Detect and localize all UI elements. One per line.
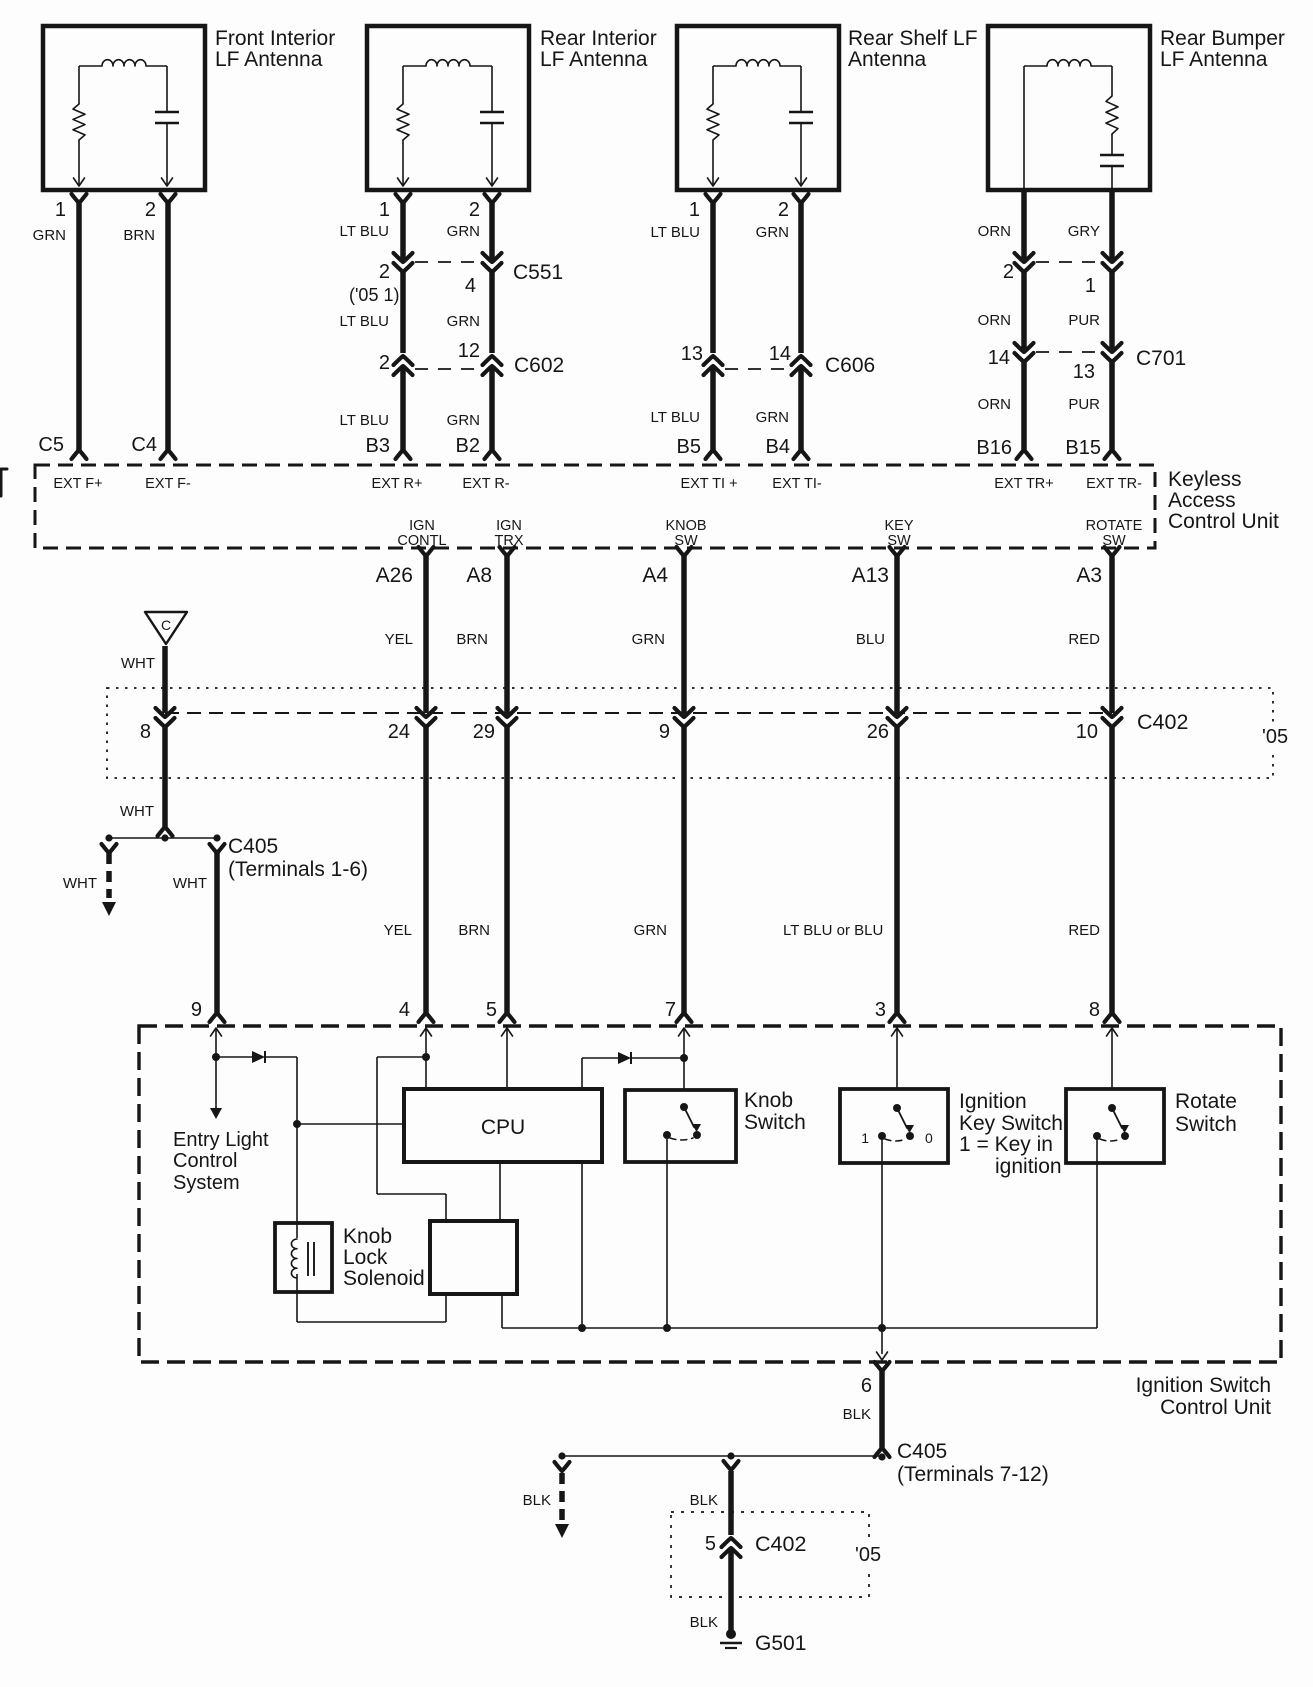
svg-text:Ignition: Ignition xyxy=(959,1090,1027,1113)
svg-text:Lock: Lock xyxy=(343,1246,388,1269)
svg-text:Rotate: Rotate xyxy=(1175,1090,1237,1113)
svg-text:2: 2 xyxy=(379,352,390,374)
svg-text:Entry Light: Entry Light xyxy=(173,1129,269,1151)
svg-text:C402: C402 xyxy=(755,1532,806,1556)
svg-text:LF Antenna: LF Antenna xyxy=(540,48,648,71)
svg-text:C405: C405 xyxy=(897,1440,947,1463)
svg-text:EXT F+: EXT F+ xyxy=(53,476,102,492)
svg-text:Access: Access xyxy=(1168,489,1236,512)
svg-text:BRN: BRN xyxy=(123,227,155,244)
svg-text:13: 13 xyxy=(681,343,703,365)
svg-text:KEY: KEY xyxy=(884,518,913,534)
svg-text:Control Unit: Control Unit xyxy=(1160,1396,1271,1419)
svg-text:C602: C602 xyxy=(514,354,564,377)
svg-text:C405: C405 xyxy=(228,835,278,858)
svg-text:GRN: GRN xyxy=(632,631,665,648)
svg-text:13: 13 xyxy=(1073,361,1095,383)
svg-text:BRN: BRN xyxy=(456,631,488,648)
svg-text:Antenna: Antenna xyxy=(848,48,927,71)
svg-text:Rear Interior: Rear Interior xyxy=(540,27,657,50)
svg-text:EXT F-: EXT F- xyxy=(145,476,191,492)
svg-text:12: 12 xyxy=(458,340,480,362)
svg-text:'05: '05 xyxy=(855,1544,881,1566)
svg-text:1: 1 xyxy=(861,1130,869,1146)
svg-text:1: 1 xyxy=(55,199,66,221)
svg-text:WHT: WHT xyxy=(120,803,154,820)
svg-text:ORN: ORN xyxy=(978,396,1011,413)
svg-text:YEL: YEL xyxy=(384,922,412,939)
svg-text:Switch: Switch xyxy=(1175,1113,1237,1136)
svg-text:C606: C606 xyxy=(825,354,875,377)
svg-text:GRN: GRN xyxy=(33,227,66,244)
svg-text:Front Interior: Front Interior xyxy=(215,27,335,50)
svg-text:2: 2 xyxy=(379,261,390,283)
svg-text:EXT R-: EXT R- xyxy=(462,476,509,492)
svg-text:System: System xyxy=(173,1172,240,1194)
svg-text:ORN: ORN xyxy=(978,312,1011,329)
svg-text:5: 5 xyxy=(705,1533,716,1555)
svg-text:C701: C701 xyxy=(1136,347,1186,370)
svg-text:29: 29 xyxy=(473,721,495,743)
svg-text:ORN: ORN xyxy=(978,223,1011,240)
svg-text:RED: RED xyxy=(1068,922,1100,939)
svg-text:('05 1): ('05 1) xyxy=(349,285,399,305)
svg-text:CONTL: CONTL xyxy=(397,533,446,549)
svg-text:B2: B2 xyxy=(456,435,480,457)
svg-text:8: 8 xyxy=(140,721,151,743)
svg-text:G501: G501 xyxy=(755,1632,806,1655)
svg-text:4: 4 xyxy=(399,999,410,1021)
svg-text:'05: '05 xyxy=(1262,726,1288,748)
svg-text:7: 7 xyxy=(665,999,676,1021)
svg-text:WHT: WHT xyxy=(173,875,207,892)
svg-text:C402: C402 xyxy=(1137,710,1188,734)
svg-text:LT BLU: LT BLU xyxy=(340,313,389,330)
svg-text:Rear Shelf LF: Rear Shelf LF xyxy=(848,27,978,50)
svg-text:LT BLU: LT BLU xyxy=(651,224,700,241)
svg-text:GRN: GRN xyxy=(447,223,480,240)
svg-text:B16: B16 xyxy=(976,437,1012,459)
svg-text:2: 2 xyxy=(469,199,480,221)
svg-text:Control Unit: Control Unit xyxy=(1168,510,1279,533)
svg-text:BLK: BLK xyxy=(690,1614,718,1631)
svg-text:IGN: IGN xyxy=(496,518,522,534)
svg-text:EXT TR-: EXT TR- xyxy=(1086,476,1142,492)
svg-text:8: 8 xyxy=(1089,999,1100,1021)
svg-text:6: 6 xyxy=(861,1375,872,1397)
svg-text:A8: A8 xyxy=(466,564,492,587)
svg-text:GRY: GRY xyxy=(1068,223,1100,240)
svg-text:BLK: BLK xyxy=(843,1406,871,1423)
svg-text:Solenoid: Solenoid xyxy=(343,1267,425,1290)
svg-text:BLK: BLK xyxy=(523,1492,551,1509)
svg-text:LF Antenna: LF Antenna xyxy=(1160,48,1268,71)
svg-text:GRN: GRN xyxy=(634,922,667,939)
svg-text:24: 24 xyxy=(388,721,410,743)
svg-text:Rear Bumper: Rear Bumper xyxy=(1160,27,1285,50)
svg-text:C4: C4 xyxy=(131,434,157,456)
svg-text:LT BLU: LT BLU xyxy=(340,412,389,429)
svg-text:5: 5 xyxy=(486,999,497,1021)
svg-text:CPU: CPU xyxy=(481,1116,525,1139)
svg-text:10: 10 xyxy=(1076,721,1098,743)
svg-text:0: 0 xyxy=(925,1130,933,1146)
svg-text:A13: A13 xyxy=(852,564,889,587)
svg-text:(Terminals 7-12): (Terminals 7-12) xyxy=(897,1463,1049,1486)
svg-text:WHT: WHT xyxy=(63,875,97,892)
svg-text:A3: A3 xyxy=(1076,564,1102,587)
svg-text:9: 9 xyxy=(659,721,670,743)
svg-text:GRN: GRN xyxy=(447,313,480,330)
svg-text:1 = Key in: 1 = Key in xyxy=(959,1133,1053,1156)
svg-text:3: 3 xyxy=(875,999,886,1021)
svg-text:YEL: YEL xyxy=(385,631,413,648)
svg-text:GRN: GRN xyxy=(756,224,789,241)
svg-text:Keyless: Keyless xyxy=(1168,468,1242,491)
svg-text:EXT TR+: EXT TR+ xyxy=(994,476,1054,492)
svg-text:LF Antenna: LF Antenna xyxy=(215,48,323,71)
svg-text:1: 1 xyxy=(689,199,700,221)
svg-text:B5: B5 xyxy=(677,436,701,458)
svg-text:(Terminals 1-6): (Terminals 1-6) xyxy=(228,858,368,881)
svg-text:2: 2 xyxy=(778,199,789,221)
svg-text:LT BLU: LT BLU xyxy=(651,409,700,426)
svg-text:26: 26 xyxy=(867,721,889,743)
svg-text:Knob: Knob xyxy=(343,1225,392,1248)
svg-text:LT BLU: LT BLU xyxy=(340,223,389,240)
svg-text:EXT TI-: EXT TI- xyxy=(772,476,822,492)
svg-text:A4: A4 xyxy=(642,564,668,587)
svg-text:IGN: IGN xyxy=(409,518,435,534)
svg-text:ignition: ignition xyxy=(995,1155,1062,1178)
svg-text:Switch: Switch xyxy=(744,1111,806,1134)
svg-text:B3: B3 xyxy=(366,435,390,457)
svg-text:14: 14 xyxy=(988,347,1010,369)
svg-text:Key Switch: Key Switch xyxy=(959,1112,1063,1135)
svg-text:RED: RED xyxy=(1068,631,1100,648)
svg-text:EXT TI +: EXT TI + xyxy=(680,476,737,492)
svg-text:GRN: GRN xyxy=(447,412,480,429)
svg-text:BLK: BLK xyxy=(690,1492,718,1509)
svg-text:PUR: PUR xyxy=(1068,312,1100,329)
svg-text:4: 4 xyxy=(465,275,476,297)
svg-text:BLU: BLU xyxy=(856,631,885,648)
svg-text:KNOB: KNOB xyxy=(665,518,706,534)
svg-text:LT BLU or BLU: LT BLU or BLU xyxy=(783,922,883,939)
svg-text:A26: A26 xyxy=(376,564,413,587)
svg-text:WHT: WHT xyxy=(121,655,155,672)
svg-text:9: 9 xyxy=(191,999,202,1021)
svg-text:Knob: Knob xyxy=(744,1089,793,1112)
svg-text:B4: B4 xyxy=(766,436,790,458)
svg-text:Control: Control xyxy=(173,1150,237,1172)
svg-text:BRN: BRN xyxy=(458,922,490,939)
svg-text:ROTATE: ROTATE xyxy=(1086,518,1143,534)
svg-text:2: 2 xyxy=(1003,261,1014,283)
svg-text:Ignition Switch: Ignition Switch xyxy=(1136,1374,1271,1397)
svg-text:EXT R+: EXT R+ xyxy=(372,476,423,492)
svg-text:GRN: GRN xyxy=(756,409,789,426)
svg-text:2: 2 xyxy=(145,199,156,221)
svg-text:C5: C5 xyxy=(38,434,64,456)
svg-text:C551: C551 xyxy=(513,261,563,284)
svg-text:1: 1 xyxy=(1085,275,1096,297)
svg-text:14: 14 xyxy=(769,343,791,365)
svg-text:PUR: PUR xyxy=(1068,396,1100,413)
svg-text:B15: B15 xyxy=(1065,437,1101,459)
svg-text:1: 1 xyxy=(379,199,390,221)
svg-text:C: C xyxy=(161,617,171,633)
